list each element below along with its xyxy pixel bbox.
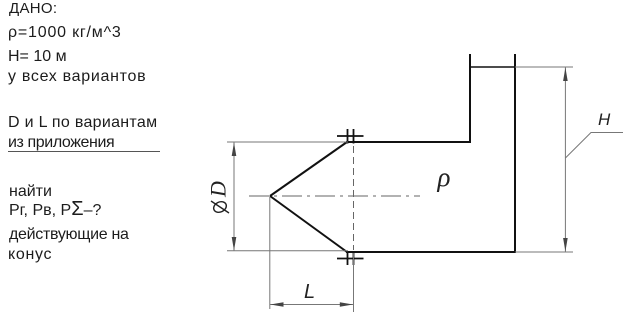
water level line	[470, 66, 515, 68]
svg-text:H: H	[598, 110, 611, 129]
dimension line L	[270, 304, 354, 306]
flange ticks bottom	[337, 252, 364, 266]
L extension right	[353, 253, 355, 312]
svg-text:ρ: ρ	[437, 162, 451, 192]
H leader line	[565, 133, 623, 159]
column left wall	[469, 54, 471, 143]
center line (dash-dot)	[249, 195, 420, 197]
svg-text:D: D	[206, 181, 231, 198]
dimension line H	[564, 67, 566, 252]
tank bottom wall	[346, 251, 515, 253]
cone lower slant wire	[270, 196, 347, 252]
cone base hidden line (dashed)	[353, 146, 355, 250]
underline under "из приложения"	[8, 151, 160, 153]
tank right wall	[514, 54, 516, 253]
dimension line phiD	[233, 142, 235, 251]
cone upper slant wire	[270, 142, 347, 196]
svg-text:L: L	[304, 281, 315, 303]
label phiD	[206, 181, 231, 214]
bottom extension right	[515, 251, 573, 253]
dimension phiD extension bottom	[227, 250, 348, 252]
dimension phiD extension top	[227, 141, 348, 143]
tank top wall	[346, 141, 470, 143]
water level extension	[515, 66, 573, 68]
L extension left (from apex)	[269, 197, 271, 309]
flange ticks top	[337, 129, 364, 144]
text block: given data	[9, 1, 57, 16]
